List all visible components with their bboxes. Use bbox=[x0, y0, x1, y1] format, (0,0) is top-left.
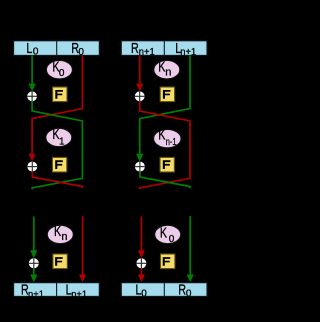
key Kn-1 ellipse bbox=[154, 126, 181, 148]
key Kn ellipse bbox=[47, 222, 73, 243]
xor node XOR-A bbox=[135, 91, 145, 101]
svg-text:0: 0 bbox=[169, 234, 175, 245]
wire green resumes after gap, into XOR3 bbox=[30, 217, 37, 259]
xor node XOR1 bbox=[27, 91, 37, 101]
round function F box (right bottom) bbox=[161, 254, 175, 269]
svg-text:0: 0 bbox=[186, 288, 192, 299]
svg-text:K: K bbox=[158, 126, 166, 143]
wire green from XOR-B cross to right, stub before gap bbox=[140, 172, 190, 189]
key K0 ellipse (right bottom) bbox=[155, 224, 181, 245]
svg-text:n+1: n+1 bbox=[139, 47, 155, 58]
svg-text:n: n bbox=[61, 231, 67, 243]
round function F box (right round 2) bbox=[160, 157, 174, 172]
wire red Rn+1 down to XOR-A bbox=[136, 55, 143, 91]
xor node XOR-C bbox=[136, 258, 146, 268]
wire green from XOR1 cross to right, down bbox=[32, 101, 82, 189]
key K0 ellipse bbox=[46, 58, 72, 79]
xor node XOR3 bbox=[29, 258, 39, 268]
key K1 ellipse bbox=[46, 125, 72, 147]
wire green Ln+1 down, cross to left, into XOR-B bbox=[136, 55, 190, 161]
svg-text:n: n bbox=[165, 67, 171, 79]
wire red from XOR-A cross to right, down bbox=[140, 101, 190, 189]
xor node XOR2 bbox=[27, 162, 37, 172]
svg-text:0: 0 bbox=[141, 288, 147, 299]
svg-text:n+1: n+1 bbox=[28, 289, 44, 300]
wire red from XOR2 cross to right, stub before gap bbox=[32, 172, 82, 189]
box Rn+1|Ln+1 (top-right input register) bbox=[121, 39, 207, 58]
svg-text:0: 0 bbox=[78, 47, 84, 58]
svg-text:0: 0 bbox=[33, 47, 39, 58]
wire red from XOR-C to output box bbox=[138, 268, 145, 282]
wire red resumes after gap, into XOR-C bbox=[138, 217, 145, 259]
key Kn ellipse (right) bbox=[154, 58, 180, 79]
box L0|R0 (top-left input register) bbox=[14, 39, 100, 58]
wire green from XOR3 to output box bbox=[30, 268, 37, 282]
box L0|R0 (bottom-right output register) bbox=[121, 281, 207, 299]
svg-text:L: L bbox=[26, 39, 32, 56]
round function F box (right round 1) bbox=[160, 87, 174, 102]
wire red resumes after gap, down to output box bbox=[79, 216, 86, 282]
wire green resumes after gap, down to output box bbox=[187, 216, 194, 282]
svg-text:K: K bbox=[160, 224, 168, 241]
svg-text:n+1: n+1 bbox=[180, 47, 196, 58]
round function F3 box bbox=[53, 254, 67, 269]
svg-text:R: R bbox=[131, 39, 139, 56]
xor node XOR-B bbox=[135, 162, 145, 172]
wire red R0 down, cross to left, into XOR2 bbox=[29, 55, 83, 161]
svg-text:n-1: n-1 bbox=[166, 136, 177, 147]
svg-text:0: 0 bbox=[59, 68, 65, 79]
svg-text:1: 1 bbox=[59, 136, 65, 147]
box Rn+1|Ln+1 (bottom-left output register) bbox=[14, 281, 100, 301]
round function F1 box bbox=[53, 87, 67, 102]
round function F2 box bbox=[52, 157, 66, 172]
svg-text:n+1: n+1 bbox=[71, 289, 87, 300]
wire green L0 down to XOR1 bbox=[29, 55, 36, 91]
